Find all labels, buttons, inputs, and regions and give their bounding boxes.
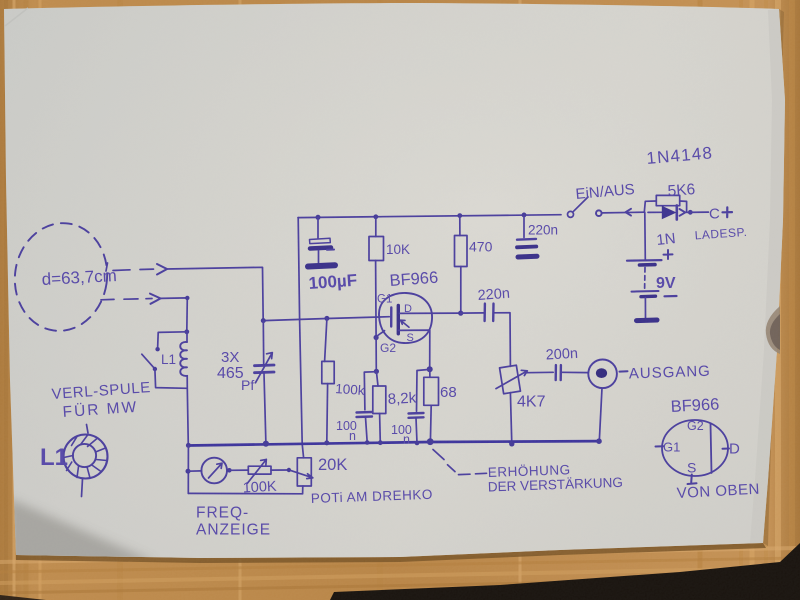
switch S1 contact — [155, 347, 159, 351]
battery B1 bottom cell — [632, 290, 659, 293]
slightly darker right edge strip of paper — [750, 9, 785, 543]
resistor R3 5K6 stubs — [644, 201, 686, 212]
ground symbol — [637, 318, 658, 324]
capacitor C5 100n plates — [409, 412, 424, 415]
resistor R3 5K6 body — [656, 195, 679, 205]
resistor R6 68 — [429, 369, 431, 377]
node tuning junction — [261, 318, 266, 323]
node L1 top — [184, 329, 189, 334]
pinout diagram BF966 bottom right — [656, 420, 730, 484]
node rail jack — [596, 438, 602, 444]
potentiometer P1 4K7 arrow — [496, 370, 527, 388]
node G2 junction — [374, 335, 379, 340]
node 10K top — [373, 214, 378, 219]
switch Ein/Aus arm — [574, 197, 589, 211]
capacitor C6 220n plates — [483, 304, 486, 321]
transistor T1 BF966 body circle — [379, 293, 432, 343]
inductor L1 coil — [180, 342, 187, 376]
wire 470 to drain node — [460, 267, 462, 314]
toroid L1 outer — [64, 435, 108, 479]
node 100k top — [324, 316, 329, 321]
wire gate bus — [263, 317, 389, 321]
switch Ein/Aus contact circle — [568, 211, 574, 217]
node drain — [458, 311, 463, 316]
shadow wedge bottom-left of paper — [8, 498, 155, 575]
wire switch to diode junction — [603, 211, 645, 214]
wire 4K7 to rail — [510, 393, 511, 444]
bottom wood band horizontal grain — [0, 548, 800, 593]
switch S1 arm — [142, 354, 155, 368]
fold crease top-left corner — [5, 8, 28, 26]
wire 100k to rail — [326, 384, 329, 443]
switch Ein/Aus pole circle — [596, 210, 602, 216]
node rail left — [186, 443, 191, 448]
pinout G1 lead dash — [656, 445, 664, 447]
wire to meter — [188, 470, 201, 472]
node rail varcap — [263, 441, 269, 447]
variable capacitor C3 wire top — [262, 321, 264, 365]
wire bottom rail — [188, 441, 599, 445]
variable capacitor C3 arrow — [256, 353, 273, 383]
variable capacitor C3 plates — [255, 364, 275, 368]
wire jack to rail — [599, 388, 602, 441]
node meter right — [227, 468, 232, 473]
switch S1 pole — [153, 367, 157, 371]
transistor T1 source wire — [399, 330, 430, 369]
wire 10K to G2 node — [375, 261, 378, 338]
wire diode to C+ — [687, 211, 709, 213]
transistor T1 G2 lead — [376, 331, 384, 338]
toroid L1 inner — [73, 444, 96, 467]
antenna loop (dashed circle) — [8, 217, 114, 337]
wire C6 to 4K7 — [494, 313, 511, 367]
wire G2 node down — [375, 338, 377, 372]
grey object right edge — [766, 306, 780, 354]
capacitor C4 100n left bracket — [364, 372, 376, 410]
node 100uF top — [316, 215, 321, 220]
wire varcap to bottom rail — [264, 374, 266, 444]
node wiper — [287, 468, 291, 472]
transistor T1 drain wire — [400, 312, 461, 314]
battery plus sign — [664, 250, 673, 259]
node 470 top — [457, 213, 462, 218]
resistor R1 10K — [375, 217, 377, 237]
node rail 100k — [324, 440, 329, 445]
output jack outer circle — [588, 360, 617, 389]
wire 200n to jack — [561, 371, 588, 373]
arrow after diode — [680, 209, 686, 216]
node 220n top rail — [522, 213, 527, 218]
meter M1 circle — [201, 458, 227, 484]
wire L1 vertical — [187, 332, 188, 446]
rheostat R7 100K body — [248, 466, 271, 474]
pinout chord line — [711, 424, 712, 474]
wire C4 to rail — [366, 417, 368, 442]
pinout circle — [662, 420, 728, 476]
terminal C+ plus sign — [723, 207, 733, 217]
node rail 8k2 — [378, 440, 383, 445]
output jack inner pin — [596, 368, 607, 378]
battery dashed middle — [644, 268, 646, 290]
node rail 4K7 — [509, 441, 514, 446]
resistor R2 470 — [459, 216, 461, 236]
resistor R5 8k2 — [376, 371, 378, 386]
node 8k2 top — [374, 369, 379, 374]
wire L1 switch bracket — [158, 332, 187, 349]
toroid L1 leads — [82, 425, 89, 497]
node rail C5 — [415, 441, 420, 446]
battery minus sign — [665, 295, 677, 297]
wire wiper to 200n — [527, 371, 554, 373]
meter M1 needle — [209, 463, 223, 478]
wire 100K to wiper node — [271, 469, 289, 471]
capacitor C7 200n plates — [555, 365, 558, 380]
wire freq bottom bracket — [188, 486, 302, 494]
pinout S lead hook — [688, 475, 697, 485]
dark floor band bottom — [330, 543, 800, 600]
resistor R4 100k body — [325, 319, 327, 362]
node rail 68 — [427, 438, 434, 445]
wire meter to 100K — [229, 469, 248, 471]
pointer dashes to gain note — [433, 450, 487, 475]
capacitor C2 220n top — [523, 215, 525, 238]
paper drop shadow along bottom/right — [16, 543, 766, 563]
wire C5 to rail — [416, 418, 417, 443]
rheostat R7 100K arrow — [247, 459, 266, 483]
capacitor C4 100n plates — [357, 411, 373, 414]
node meter branch — [186, 469, 191, 474]
label dash ausgang — [620, 370, 628, 372]
wire antenna upper to corner — [167, 267, 264, 320]
battery B1 wire down — [644, 212, 647, 259]
transistor T1 channel bar — [397, 306, 400, 334]
wire antenna upper dashed — [106, 263, 154, 271]
wiper arrow to 20k — [291, 470, 313, 478]
wire freq branch left vertical — [187, 446, 189, 494]
wire antenna lower to L1 top — [161, 298, 187, 332]
arrow mark on supply wire — [626, 209, 632, 216]
transistor T1 gate1 bar — [390, 308, 392, 327]
transistor T1 substrate arrow — [401, 320, 410, 327]
wire antenna lower dashed — [101, 299, 152, 300]
toroid L1 windings — [64, 435, 107, 479]
wire top rail — [298, 215, 561, 218]
potentiometer P2 20k body — [297, 458, 311, 486]
battery B1 top cell — [627, 259, 662, 262]
pinout D lead dash — [723, 448, 730, 450]
node rail C4 — [365, 440, 370, 445]
node arrow lower — [150, 294, 161, 304]
wire left vertical from top rail to 20k pot — [298, 218, 303, 458]
node antenna lower — [185, 296, 189, 300]
wire battery to ground — [644, 298, 646, 319]
wire switch to bottom bracket — [155, 369, 187, 388]
diode D1 1N4148 — [648, 211, 662, 213]
potentiometer P1 4K7 body — [500, 365, 521, 394]
node arrow upper — [157, 264, 167, 275]
capacitor C1 100uF — [317, 218, 319, 239]
capacitor C5 100n right bracket — [417, 369, 430, 411]
node source/68 — [427, 366, 433, 372]
capacitor C6 220n coupling wire — [461, 312, 484, 314]
